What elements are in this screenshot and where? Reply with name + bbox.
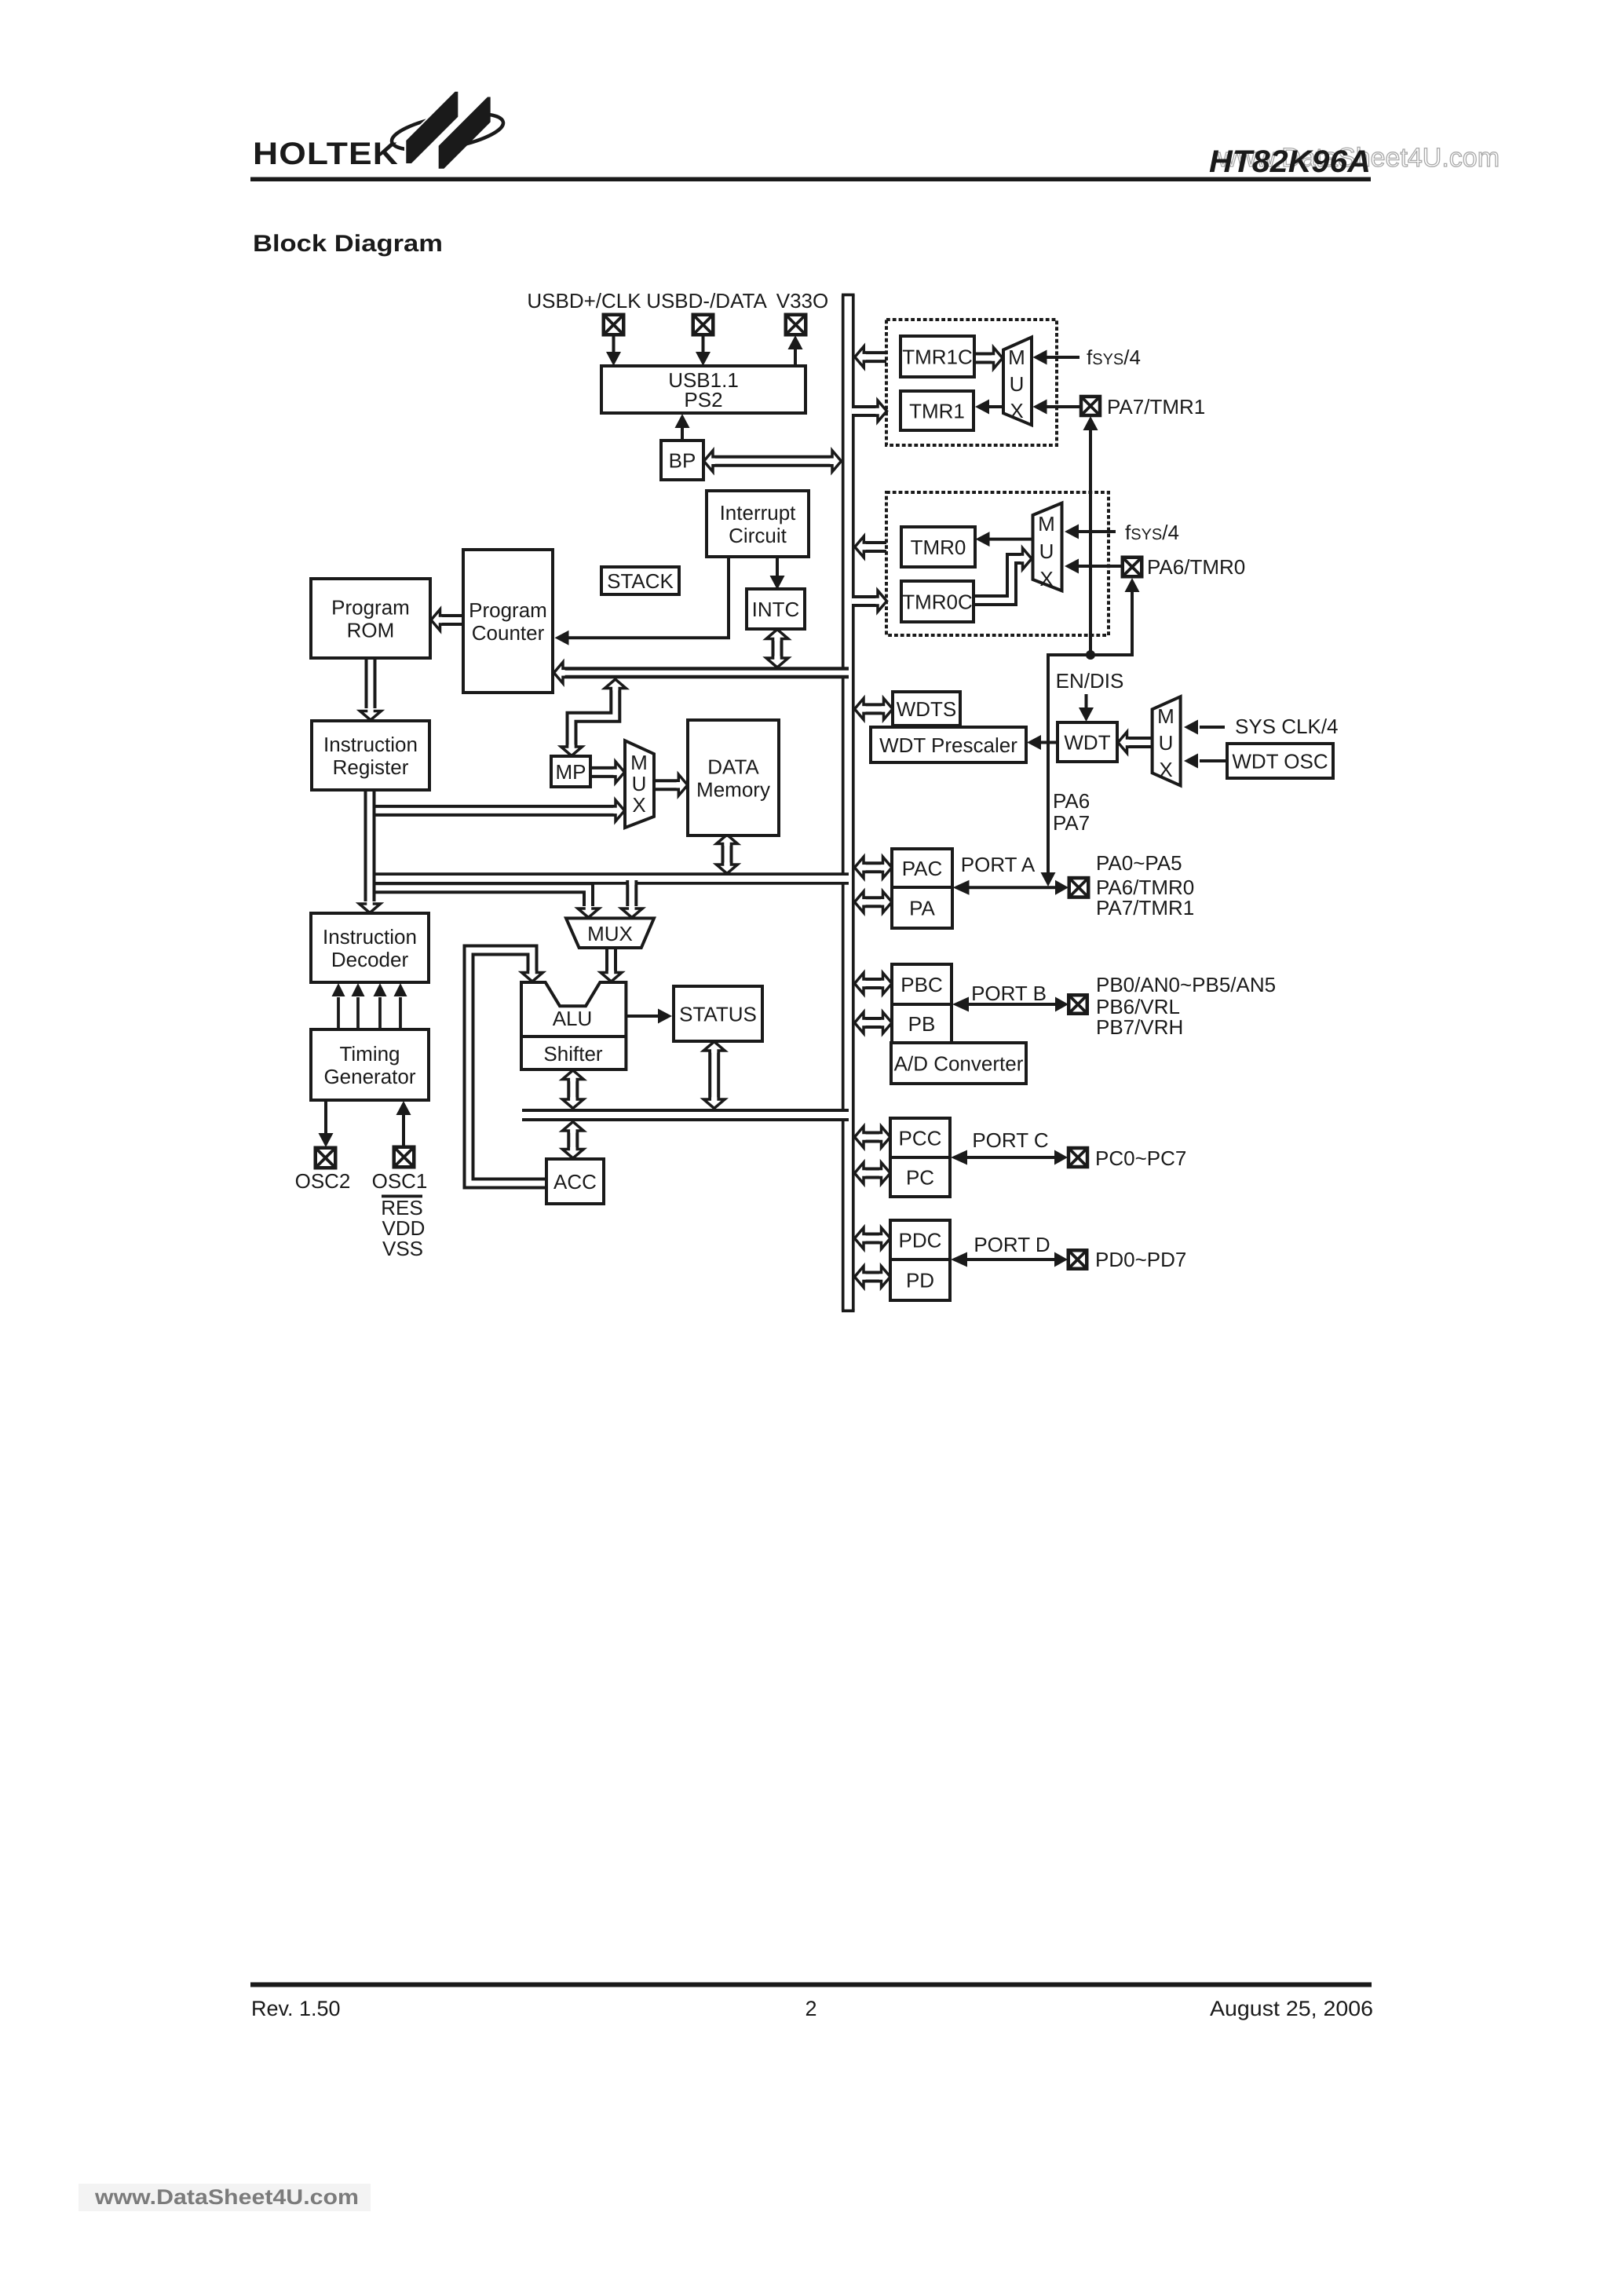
svg-text:PA7/TMR1: PA7/TMR1 [1107, 395, 1205, 419]
label PA6 [1053, 789, 1090, 813]
svg-text:Rev. 1.50: Rev. 1.50 [251, 1997, 341, 2020]
svg-text:PCC: PCC [899, 1126, 942, 1150]
svg-text:Shifter: Shifter [543, 1042, 602, 1066]
svg-text:VSS: VSS [382, 1237, 423, 1260]
svg-text:TMR1C: TMR1C [902, 345, 973, 368]
wire fsys/4 to MUX1 [1033, 350, 1080, 365]
label PC0~PC7 [1095, 1146, 1186, 1170]
svg-text:WDT Prescaler: WDT Prescaler [879, 733, 1017, 757]
bus tap PDC [855, 1228, 891, 1249]
wire MUX5 to ALU [601, 948, 622, 982]
svg-text:TMR0C: TMR0C [902, 590, 973, 613]
block Interrupt Circuit [707, 491, 809, 557]
svg-text:PORT D: PORT D [974, 1233, 1050, 1256]
pad PA6/TMR0 [1123, 558, 1142, 577]
block STATUS [674, 986, 762, 1041]
svg-text:X: X [632, 793, 645, 817]
svg-text:Interrupt: Interrupt [720, 501, 797, 525]
wire pad USBD+/CLK to USB block [606, 335, 621, 366]
wire Interrupt Circuit to INTC [770, 557, 785, 590]
svg-text:PA6/TMR0: PA6/TMR0 [1147, 555, 1245, 579]
svg-text:PORT A: PORT A [961, 853, 1036, 876]
footer rule [250, 1983, 1372, 1987]
wire pad PA6/TMR0 to MUX2 [1065, 559, 1123, 574]
label PB7/VRH [1096, 1015, 1183, 1039]
wire DATA Memory to loop-bus (bidirectional) [717, 835, 738, 874]
svg-text:PA7: PA7 [1053, 811, 1090, 835]
svg-text:PB: PB [908, 1012, 936, 1036]
block TMR1 [901, 391, 974, 430]
svg-text:USBD+/CLK: USBD+/CLK [527, 289, 641, 313]
svg-text:PAC: PAC [902, 857, 943, 880]
wire pad USBD-/DATA to USB block [696, 335, 711, 366]
block PAC [892, 849, 952, 887]
wire TMR1C to MUX1 (open arrow) [974, 348, 1003, 369]
label PA6/TMR0 (pad) [1147, 555, 1245, 579]
svg-text:X: X [1039, 567, 1053, 590]
heading Block Diagram [253, 231, 443, 257]
wire MP MUX to DATA Memory [654, 774, 688, 795]
svg-text:ACC: ACC [553, 1170, 597, 1194]
bus tap to TMR1 (open arrow into timer block) [852, 400, 887, 422]
wire MP S-link (PC-bus to MP) [561, 679, 627, 756]
block Program Counter [463, 550, 553, 693]
wire USB block to pad V33O [788, 335, 803, 366]
wire PORT B line [952, 997, 1069, 1012]
wire PORT C line [951, 1150, 1068, 1165]
label V33O [776, 289, 829, 313]
footer page number [805, 1997, 816, 2020]
label OSC1 [372, 1169, 428, 1193]
svg-text:M: M [1038, 512, 1055, 536]
wire PORT A line [953, 880, 1069, 895]
bus tap to TMR0 (open arrow at bus) [855, 536, 886, 558]
wire WDT OSC to MUX3 [1184, 754, 1227, 769]
header rule [250, 177, 1371, 182]
svg-text:Decoder: Decoder [331, 948, 409, 971]
svg-text:PD: PD [906, 1268, 934, 1292]
svg-text:TMR1: TMR1 [909, 399, 965, 422]
svg-text:USBD-/DATA: USBD-/DATA [646, 289, 767, 313]
wire Program ROM to Instruction Register [360, 658, 382, 720]
label USBD-/DATA [646, 289, 767, 313]
label OSC2 [295, 1169, 351, 1193]
block PC [890, 1157, 950, 1197]
dashed box timer1 group [886, 320, 1057, 445]
svg-text:Instruction: Instruction [323, 925, 417, 949]
junction patch big-MUX branch [629, 877, 634, 885]
block USB1.1 PS2 [601, 366, 806, 413]
mux MUX3 (WDT) [1153, 696, 1181, 785]
svg-text:DATA: DATA [707, 755, 759, 778]
svg-text:PS2: PS2 [684, 388, 722, 411]
block PB [892, 1004, 952, 1043]
wire Shifter to data bus (bidirectional) [562, 1070, 583, 1109]
block Program ROM [311, 579, 430, 658]
footer revision [251, 1997, 341, 2020]
svg-text:X: X [1159, 758, 1172, 781]
block WDT Prescaler [871, 727, 1026, 762]
pad PORT A [1069, 878, 1089, 898]
mux MUX4 (MP) [625, 740, 654, 828]
bus tap PCC [855, 1127, 891, 1148]
svg-text:PA0~PA5: PA0~PA5 [1096, 851, 1182, 875]
block Instruction Decoder [311, 913, 429, 982]
block WDT OSC [1227, 744, 1333, 778]
label PA6/TMR0 (port) [1096, 876, 1194, 899]
pad PORT D [1069, 1250, 1087, 1269]
block Timing Generator [311, 1029, 429, 1100]
block TMR0 [901, 527, 975, 567]
block PA [892, 887, 952, 928]
block WDT [1058, 722, 1117, 762]
svg-text:SYS CLK/4: SYS CLK/4 [1235, 715, 1339, 738]
svg-text:PORT C: PORT C [972, 1128, 1048, 1152]
bus tap to TMR0C (open arrow into timer block) [852, 590, 887, 612]
label PB6/VRL [1096, 995, 1180, 1018]
svg-text:PDC: PDC [899, 1228, 942, 1252]
svg-text:U: U [632, 772, 647, 795]
block WDTS [893, 692, 960, 726]
label PA0~PA5 [1096, 851, 1182, 875]
block DATA Memory [688, 720, 779, 835]
svg-text:M: M [1008, 345, 1025, 369]
svg-text:V33O: V33O [776, 289, 829, 313]
label PORT A [961, 853, 1036, 876]
svg-text:U: U [1159, 731, 1174, 755]
block ALU with Shifter [521, 982, 626, 1069]
bus tap PB [855, 1012, 893, 1033]
HOLTEK logo text [253, 137, 399, 171]
watermark band (bottom) [79, 2184, 371, 2211]
svg-text:Timing: Timing [339, 1042, 400, 1066]
label EN/DIS [1056, 669, 1124, 693]
svg-text:Program: Program [331, 595, 410, 619]
bus tap PAC [855, 857, 893, 878]
svg-text:U: U [1010, 372, 1025, 396]
svg-text:PB7/VRH: PB7/VRH [1096, 1015, 1183, 1039]
label fsys/4 (TMR1) [1087, 345, 1141, 369]
wire IR to MP MUX (horizontal) [370, 800, 625, 821]
wire PC to Program ROM (open arrow) [431, 609, 463, 631]
svg-text:MUX: MUX [587, 922, 633, 945]
label PB0/AN0~PB5/AN5 [1096, 973, 1276, 996]
svg-text:OSC1: OSC1 [372, 1169, 428, 1193]
svg-text:STATUS: STATUS [679, 1002, 757, 1026]
label PA7/TMR1 (port) [1096, 896, 1194, 919]
pad PORT B [1069, 995, 1087, 1014]
svg-text:U: U [1039, 539, 1054, 563]
svg-text:August 25, 2006: August 25, 2006 [1210, 1997, 1373, 2020]
wire Timing Generator to pad OSC2 [319, 1100, 334, 1147]
wire TMR0C to MUX2 (hollow L-path) [974, 548, 1032, 601]
label PA7 [1053, 811, 1090, 835]
svg-text:WDTS: WDTS [897, 697, 957, 721]
block TMR1C [901, 336, 974, 377]
mux MUX5 (ALU input) [566, 918, 654, 948]
pad PA7/TMR1 [1081, 397, 1100, 415]
svg-text:PA6: PA6 [1053, 789, 1090, 813]
watermark www.DataSheet4U.com (bottom) [94, 2185, 359, 2209]
wire EN/DIS to WDT [1079, 694, 1094, 722]
svg-text:OSC2: OSC2 [295, 1169, 351, 1193]
label PD0~PD7 [1095, 1248, 1186, 1271]
svg-text:BP: BP [669, 448, 696, 472]
svg-text:Memory: Memory [696, 777, 770, 801]
wire Instruction Register down to Instruction Decoder [360, 790, 381, 913]
svg-text:PORT B: PORT B [971, 982, 1047, 1005]
wire pad PA7/TMR1 to MUX1 [1033, 400, 1082, 415]
svg-text:Counter: Counter [472, 621, 545, 645]
block A/D Converter [891, 1043, 1026, 1084]
svg-text:M: M [1157, 704, 1174, 728]
block INTC [747, 589, 805, 629]
svg-text:Instruction: Instruction [323, 733, 418, 756]
dashed box timer0 group [886, 492, 1109, 635]
svg-text:EN/DIS: EN/DIS [1056, 669, 1124, 693]
block Instruction Register [312, 721, 429, 790]
label PORT C [972, 1128, 1048, 1152]
wire MUX3 to WDT (open arrow) [1118, 732, 1153, 753]
svg-text:ROM: ROM [347, 618, 395, 642]
pad USBD-/DATA [693, 315, 714, 335]
wire IR branch to big MUX left (L-path) [370, 888, 589, 906]
pad OSC1 [394, 1147, 415, 1168]
arrowhead into big MUX left [578, 906, 599, 917]
svg-text:HT82K96A: HT82K96A [1209, 144, 1371, 179]
block PBC [892, 964, 952, 1004]
label USBD+/CLK [527, 289, 641, 313]
svg-text:Circuit: Circuit [729, 524, 787, 547]
svg-text:Register: Register [333, 755, 409, 779]
wire ACC feedback loop to ALU [469, 950, 546, 1183]
svg-text:WDT OSC: WDT OSC [1232, 749, 1328, 773]
svg-text:PB0/AN0~PB5/AN5: PB0/AN0~PB5/AN5 [1096, 973, 1276, 996]
svg-text:STACK: STACK [607, 569, 674, 593]
svg-text:Block Diagram: Block Diagram [253, 231, 443, 257]
wire IR to system bus (horizontal) [370, 872, 849, 885]
block MP [551, 756, 590, 787]
block STACK [601, 567, 679, 594]
bus tap PD [855, 1267, 891, 1288]
HOLTEK logo mark [389, 90, 506, 170]
svg-text:PC: PC [906, 1165, 934, 1189]
wire fsys/4 to MUX2 [1065, 525, 1116, 539]
wire pad OSC1 to Timing Generator [396, 1101, 411, 1147]
label RES (active low) [381, 1195, 422, 1220]
title HT82K96A [1209, 144, 1371, 179]
svg-text:A/D Converter: A/D Converter [894, 1051, 1024, 1075]
pad PORT C [1069, 1148, 1087, 1167]
svg-text:PA7/TMR1: PA7/TMR1 [1096, 896, 1194, 919]
arrowhead into big MUX right [621, 906, 642, 917]
wire branch to big MUX right (vertical) [626, 880, 637, 906]
label PORT D [974, 1233, 1050, 1256]
svg-text:INTC: INTC [752, 598, 800, 621]
wire MP to MP MUX [590, 762, 625, 783]
svg-text:WDT: WDT [1064, 730, 1110, 754]
wire junction to PORT A (PA6/PA7) [1041, 655, 1091, 887]
wire PORT D line [951, 1252, 1068, 1267]
mux MUX2 (TMR0) [1033, 503, 1062, 591]
pad OSC2 [316, 1148, 336, 1168]
pad V33O [786, 315, 806, 335]
block PD [890, 1260, 950, 1300]
system bus (vertical) [842, 295, 855, 1311]
svg-text:TMR0: TMR0 [911, 536, 966, 559]
svg-text:PBC: PBC [901, 973, 942, 996]
wire BP to bus (bidirectional) [704, 451, 842, 472]
bus tap PC [855, 1163, 891, 1184]
svg-text:Program: Program [469, 598, 547, 622]
wire WDT to WDT Prescaler [1027, 735, 1058, 750]
svg-text:Generator: Generator [323, 1065, 415, 1088]
wire MUX1 to TMR1 [975, 400, 1003, 415]
block BP [661, 441, 703, 480]
footer date [1210, 1997, 1373, 2020]
label VSS [382, 1237, 423, 1260]
svg-text:PD0~PD7: PD0~PD7 [1095, 1248, 1186, 1271]
bus tap PBC [855, 973, 893, 994]
block ACC [546, 1159, 604, 1204]
node junction PA7 line [1086, 650, 1095, 660]
bus tap WDTS (bidirectional) [855, 698, 893, 719]
svg-text:X: X [1010, 399, 1023, 422]
svg-text:www.DataSheet4U.com: www.DataSheet4U.com [94, 2185, 359, 2209]
wire BP to USB block [675, 414, 690, 441]
svg-text:HOLTEK: HOLTEK [253, 137, 399, 171]
block PDC [890, 1220, 950, 1260]
wire SYS CLK/4 to MUX3 [1184, 720, 1225, 735]
svg-text:ALU: ALU [553, 1007, 593, 1030]
svg-text:MP: MP [556, 760, 586, 784]
wire pad PA7/TMR1 down-link [1083, 416, 1098, 655]
block PCC [890, 1118, 950, 1157]
bus tap PA [855, 891, 893, 912]
wire PC to bus (hollow, open arrow at Program Counter) [554, 662, 849, 683]
label PA7/TMR1 (pad) [1107, 395, 1205, 419]
wire junction to pad PA6/TMR0 [1090, 578, 1140, 655]
svg-text:PC0~PC7: PC0~PC7 [1095, 1146, 1186, 1170]
wire ALU to STATUS [626, 1009, 672, 1024]
block TMR0C [901, 581, 974, 622]
wires Timing Generator to Instruction Decoder [332, 983, 407, 1029]
wire MUX2 to TMR0 [976, 532, 1033, 547]
wire data bus to ACC (bidirectional) [562, 1122, 583, 1159]
svg-text:PA: PA [909, 896, 935, 919]
wire Interrupt Circuit to Program Counter [555, 557, 729, 645]
label fsys/4 (TMR0) [1125, 521, 1179, 544]
svg-text:M: M [630, 751, 648, 774]
label VDD [382, 1216, 426, 1240]
wire STATUS to data bus (bidirectional) [703, 1042, 725, 1109]
svg-text:2: 2 [805, 1997, 816, 2020]
internal data bus (horizontal, ALU/ACC/STATUS) [522, 1109, 849, 1121]
mux MUX1 (TMR1) [1003, 337, 1032, 425]
label PORT B [971, 982, 1047, 1005]
bus tap to TMR1C (open arrow at bus) [855, 346, 886, 367]
watermark www.DataSheet4U.com (header) [1217, 143, 1500, 173]
pad USBD+/CLK [604, 315, 624, 335]
label SYS CLK/4 [1235, 715, 1339, 738]
wire INTC to PC-bus (bidirectional arrow) [766, 630, 788, 668]
